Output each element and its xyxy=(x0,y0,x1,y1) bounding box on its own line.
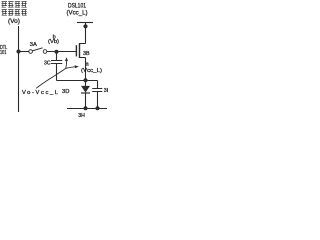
junction dot node a xyxy=(84,78,88,82)
diode 3D triangle xyxy=(81,86,90,93)
junction dot cap3I-bottom xyxy=(96,106,100,110)
svg-text:Vo-Vcc_L: Vo-Vcc_L xyxy=(22,90,59,96)
svg-text:DSL101: DSL101 xyxy=(68,3,87,9)
capacitor 3C leads xyxy=(56,53,58,81)
label 映像信号 (pseudo CJK row 1) xyxy=(2,1,27,7)
junction dot node b xyxy=(55,50,59,54)
capacitor 3C plates xyxy=(51,61,62,64)
transistor 3B channel bar xyxy=(79,43,81,58)
svg-text:3C: 3C xyxy=(44,61,51,67)
switch 3A contact right xyxy=(43,50,47,54)
svg-text:101: 101 xyxy=(0,50,6,56)
annotation leader curve xyxy=(36,68,66,88)
svg-text:3B: 3B xyxy=(83,51,90,57)
wire DTL vertical xyxy=(18,26,20,112)
svg-text:3D: 3D xyxy=(62,89,69,95)
annotation arrow up (gate) xyxy=(65,61,68,69)
capacitor 3I plates xyxy=(92,89,102,92)
transistor 3B gate bar xyxy=(75,45,77,56)
wire to switch xyxy=(19,51,29,53)
capacitor 3I bottom lead xyxy=(97,92,99,109)
wire 3I top lead xyxy=(97,81,99,89)
bottom wire 3H xyxy=(67,108,107,110)
wire source xyxy=(80,58,86,80)
junction dot DTL xyxy=(17,50,21,54)
diode 3D cathode bar xyxy=(81,92,90,94)
svg-text:(Vcc_L): (Vcc_L) xyxy=(67,11,88,17)
label 基準電位 (pseudo CJK row 2) xyxy=(2,9,27,15)
diode 3D leads xyxy=(85,81,87,109)
switch 3A blade xyxy=(32,48,42,51)
svg-text:(Vo): (Vo) xyxy=(8,19,20,25)
svg-text:3H: 3H xyxy=(78,113,85,119)
junction dot Vcc_L terminal xyxy=(83,24,87,28)
svg-text:(Vb): (Vb) xyxy=(48,39,59,45)
junction dot diode-bottom xyxy=(84,106,88,110)
svg-text:3I: 3I xyxy=(104,88,109,94)
svg-text:3A: 3A xyxy=(30,42,37,48)
wire gate lead xyxy=(47,51,76,53)
terminal bar Vcc_L xyxy=(77,22,93,24)
svg-text:(Vcc_L): (Vcc_L) xyxy=(81,68,102,74)
svg-text:a: a xyxy=(86,62,90,68)
switch 3A contact left xyxy=(29,50,33,54)
annotation arrow right (source) xyxy=(66,67,75,69)
wire node a horizontal xyxy=(57,80,98,82)
wire drain xyxy=(80,23,86,44)
